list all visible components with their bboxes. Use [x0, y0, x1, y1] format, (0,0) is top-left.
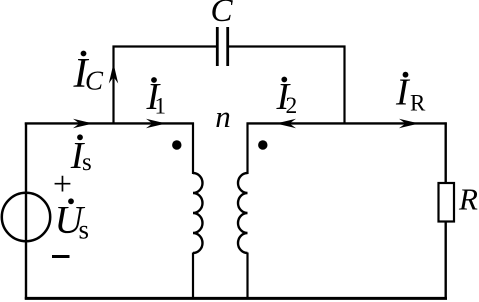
wire bottom horizontal	[25, 297, 447, 300]
svg-text:1: 1	[155, 94, 167, 119]
label Us with dot	[55, 198, 90, 245]
transformer secondary bottom lead	[246, 253, 248, 300]
wire left vertical	[25, 123, 27, 300]
transformer secondary top lead	[246, 123, 248, 175]
label I1 with dot	[146, 76, 167, 119]
wire capacitor-branch left vertical	[112, 46, 114, 124]
wire right vertical upper	[445, 122, 447, 184]
label IR with dot	[395, 72, 426, 116]
svg-text:2: 2	[286, 93, 298, 119]
svg-text:C: C	[85, 66, 104, 96]
arrow Is	[73, 119, 93, 128]
svg-text:C: C	[210, 0, 233, 29]
svg-text:n: n	[215, 99, 231, 134]
label plus	[53, 166, 72, 203]
resistor R	[439, 183, 455, 222]
wire capacitor top-left horizontal	[113, 45, 218, 47]
label Ic with dot	[73, 51, 105, 97]
svg-text:s: s	[82, 149, 92, 176]
arrow I2 (left)	[276, 119, 296, 128]
transformer primary top lead	[192, 123, 194, 175]
transformer primary winding L1	[193, 173, 203, 253]
wire top-right horizontal	[247, 122, 447, 124]
label Is with dot	[70, 134, 92, 177]
arrow IR	[399, 119, 419, 128]
transformer primary bottom lead	[192, 253, 194, 300]
svg-text:R: R	[410, 91, 426, 116]
label minus	[52, 255, 70, 258]
arrow I1	[146, 119, 166, 128]
transformer secondary winding L2	[238, 173, 248, 253]
svg-text:s: s	[79, 215, 90, 245]
source Us circle	[2, 193, 50, 241]
svg-text:I: I	[395, 72, 411, 114]
label I2 with dot	[276, 76, 298, 119]
wire top-left horizontal	[25, 122, 194, 124]
arrow Ic (up)	[109, 64, 118, 84]
wire right vertical lower	[445, 221, 447, 300]
label n	[215, 99, 231, 134]
label C	[210, 0, 233, 29]
polarity dot secondary	[258, 140, 267, 149]
svg-text:R: R	[458, 182, 478, 217]
capacitor C plates	[217, 27, 227, 66]
polarity dot primary	[172, 140, 181, 149]
wire capacitor-branch right vertical	[343, 46, 345, 125]
wire capacitor top-right horizontal	[228, 45, 346, 47]
label R	[458, 182, 478, 217]
